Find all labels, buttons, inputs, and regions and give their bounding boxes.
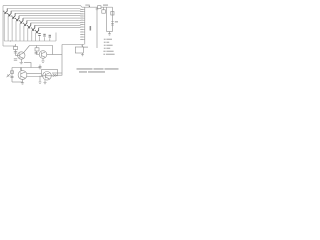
- node pin1 junction: [88, 5, 90, 7]
- parts list line 6: [103, 54, 105, 55]
- parts list line 3: [104, 45, 106, 46]
- wire Q4 out: [58, 74, 63, 76]
- wire left column: [11, 68, 13, 83]
- LED D7: [27, 23, 31, 28]
- label below node: [83, 47, 88, 48]
- pin stub row11: [80, 31, 85, 33]
- parts list line 1: [104, 39, 106, 40]
- wire LED drop 1: [3, 14, 5, 41]
- ground Q4: [43, 80, 46, 84]
- LED D8: [31, 25, 35, 30]
- node junction at top of right vertical: [96, 8, 99, 11]
- wire LED drop 4: [15, 21, 17, 41]
- wire R2 feed stub: [36, 46, 38, 48]
- LED D4: [15, 16, 19, 21]
- wire Q2 out: [47, 54, 62, 56]
- capacitor C6 on left riser: [39, 65, 42, 70]
- transistor Q4: [43, 72, 52, 81]
- wire bus riser: [55, 33, 57, 42]
- ground right: [108, 32, 111, 36]
- output chevrons: [53, 74, 57, 77]
- wire LED drop 8: [31, 31, 33, 41]
- wire rail row4: [19, 15, 81, 17]
- label above IC: [85, 4, 89, 5]
- wire big box top: [62, 44, 84, 46]
- wire bottom rail: [52, 72, 62, 74]
- capacitor C3 ticks: [14, 59, 17, 60]
- zener Z1 marks: [111, 22, 114, 26]
- LED D3: [11, 13, 15, 18]
- wire bottom cluster top rail: [12, 67, 40, 69]
- output stage box: [42, 70, 58, 76]
- wire rail row7: [31, 22, 81, 24]
- wire LED drop 7: [27, 28, 29, 41]
- wire P1 bottom stub + ground: [81, 53, 84, 56]
- parts list line 4: [104, 48, 106, 49]
- resistor R6: [11, 71, 14, 74]
- pin stub row4: [80, 15, 85, 17]
- wire rail row6: [27, 20, 81, 22]
- pin stub row6: [80, 19, 85, 21]
- wire rail row1: [7, 8, 80, 10]
- resistor R2: [35, 48, 39, 51]
- LED D1: [3, 9, 7, 14]
- wire right drop 2: [112, 7, 114, 31]
- wire input riser: [15, 44, 17, 47]
- pin stub row13: [80, 36, 85, 38]
- capacitor C2 ticks: [14, 52, 17, 53]
- LED D10: [38, 34, 40, 36]
- wire Q2 emitter: [42, 58, 44, 61]
- LED D6: [23, 21, 27, 26]
- wire cluster top link: [30, 46, 53, 55]
- LED D5: [19, 18, 23, 23]
- node bus junction: [10, 41, 11, 42]
- wire pin bus vertical: [84, 7, 86, 45]
- wire LED drop 3: [11, 19, 13, 41]
- wire right bottom link: [107, 31, 113, 33]
- wire Q1 emitter: [20, 59, 22, 62]
- wire Q3 to Q4 top: [27, 73, 42, 75]
- wire Q3 to Q4 bottom: [27, 76, 43, 78]
- wire rail row2: [11, 10, 80, 12]
- pin tick marks column: [81, 8, 82, 11]
- label top right: [103, 5, 108, 6]
- wire right drop 1: [106, 7, 108, 31]
- IC U1 label: [90, 26, 92, 31]
- resistor R5: [102, 10, 106, 13]
- wire LED drop 11: [44, 37, 46, 41]
- pin stub row10: [80, 29, 85, 31]
- wire cathode bus: [4, 40, 56, 42]
- pin stub row5: [80, 17, 85, 19]
- potentiometer P1: [75, 47, 83, 53]
- wire left vertical rail: [2, 6, 4, 46]
- wire top supply rail: [3, 6, 113, 8]
- transistor Q1: [18, 52, 25, 59]
- pin stub row14: [80, 39, 85, 41]
- wire R1 to Q1: [15, 50, 17, 56]
- pin stub row9: [80, 26, 85, 28]
- LED D12: [49, 35, 51, 37]
- pin stub row1: [80, 9, 85, 11]
- diode D13: [111, 12, 114, 16]
- resistor R1: [14, 47, 18, 50]
- ground Q2: [41, 61, 44, 62]
- wire LED drop 6: [23, 26, 25, 41]
- pin stub row8: [80, 24, 85, 26]
- wire rail row3: [15, 12, 80, 14]
- pin stub row2: [80, 11, 85, 13]
- capacitor C5 ticks: [11, 76, 14, 77]
- wire R5 stub: [103, 7, 105, 10]
- ground Q1: [20, 63, 24, 64]
- wire Q1 base: [16, 55, 20, 57]
- wire LED drop 9: [35, 33, 37, 41]
- wire link from Q1 stage down: [24, 63, 31, 68]
- LED D9: [35, 28, 39, 33]
- parts list line 5: [103, 51, 105, 52]
- caption line 1: [77, 68, 93, 69]
- wire P1 wiper: [81, 45, 84, 48]
- input arrow J1: [7, 74, 11, 77]
- LED D11: [43, 34, 45, 36]
- wire big box left: [61, 45, 63, 76]
- capacitor C4 ticks: [35, 52, 38, 53]
- node Q3 collector junction: [20, 68, 22, 71]
- wire right vertical to lower section: [96, 7, 98, 48]
- transistor Q2: [39, 51, 47, 59]
- caption line 2: [79, 71, 87, 72]
- parts list line 2: [104, 42, 106, 43]
- wire bottom ground rail: [12, 81, 23, 83]
- wire R2 to Q2 base: [37, 51, 40, 55]
- wire Q1 out diagonal: [24, 46, 30, 53]
- wire LED drop 12: [49, 38, 51, 41]
- ground Q3 emitter: [21, 79, 24, 84]
- pin stub row12: [80, 34, 85, 36]
- wire LED drop 10: [39, 36, 41, 41]
- wire stub to Q1 stage: [3, 45, 16, 47]
- wire rail row9: [39, 27, 81, 29]
- pin stub row7: [80, 21, 85, 23]
- LED D2: [7, 11, 11, 16]
- ground left riser: [39, 76, 42, 84]
- label near zener: [115, 21, 118, 22]
- wire rail row5: [23, 17, 81, 19]
- wire LED drop 5: [19, 24, 21, 42]
- resistor R4: [98, 6, 102, 9]
- transistor Q3: [18, 71, 27, 80]
- wire rail row8: [35, 24, 81, 26]
- wire LED drop 2: [7, 16, 9, 41]
- pin stub row3: [80, 13, 85, 15]
